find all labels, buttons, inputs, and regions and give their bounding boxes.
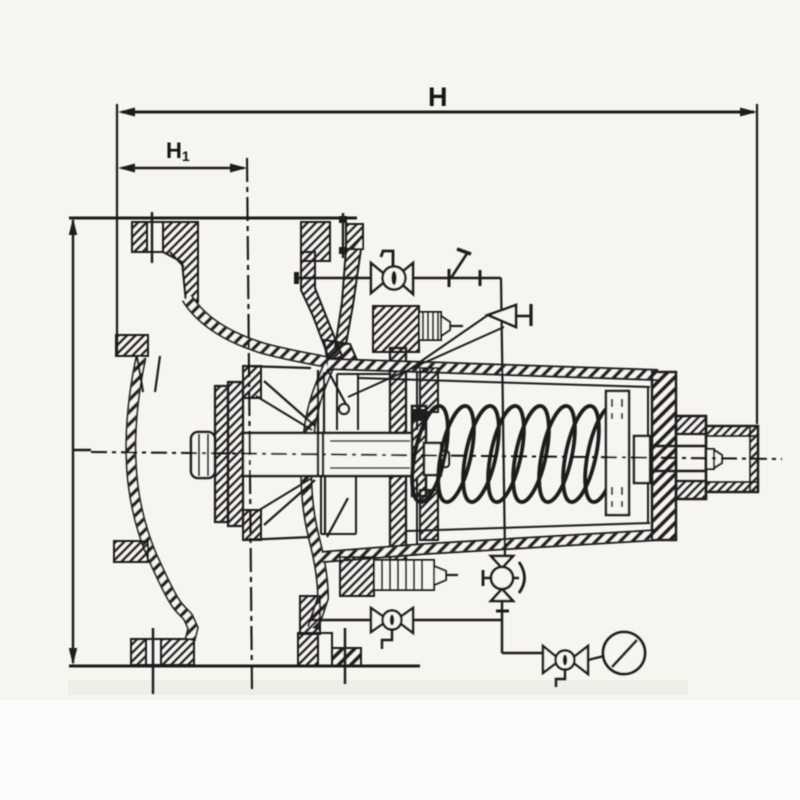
- volute outer wall upper arc (hatch): [131, 357, 193, 640]
- screw step: [706, 449, 714, 469]
- casing top-left wall block: [163, 222, 198, 302]
- discharge flange bolt: [339, 213, 347, 258]
- left vertical dimension line: [69, 218, 77, 665]
- impeller vane lines top: [264, 381, 315, 426]
- impeller nut facets: [198, 434, 200, 476]
- bottom drain flange foot: [298, 633, 361, 666]
- impeller shroud bottom line: [244, 537, 311, 540]
- bracket + cylinder bottom wall band (core): [322, 535, 658, 557]
- adjusting screw shank: [650, 446, 706, 471]
- shaft body mask: [243, 433, 412, 476]
- bracket + cylinder top wall band (core): [328, 364, 658, 375]
- horizontal centerline: [91, 452, 782, 459]
- suction mouth lower step: [114, 541, 148, 562]
- pipe boss at neck: [294, 272, 299, 284]
- valve V2 body: [371, 608, 413, 633]
- screw cone tip: [714, 450, 722, 468]
- end cap top band: [706, 426, 758, 436]
- horizontal centerline start tick: [73, 449, 91, 452]
- gland bolt hole: [339, 404, 349, 414]
- bottom fitting tip: [434, 566, 446, 585]
- valve V3 (vertical, on pipe drop): [491, 556, 513, 601]
- gland nut bottom: [676, 481, 706, 499]
- sampling cock lever: [451, 252, 468, 278]
- volute outer wall upper arc (core): [131, 357, 193, 640]
- bottom-left pipe: [310, 619, 371, 621]
- spring retainer nut: [424, 443, 441, 475]
- bracket + cylinder top wall band (hatch): [328, 364, 658, 375]
- spring adjusting sleeve: [606, 391, 629, 515]
- seal housing column lower: [390, 476, 406, 560]
- pipe union tick 2: [479, 270, 482, 286]
- pipe union tick 1: [448, 269, 451, 287]
- bottom base line: [69, 665, 420, 668]
- dimension H line: [118, 108, 757, 117]
- gland nut top: [676, 416, 706, 434]
- screw washer: [634, 436, 650, 483]
- spring coils: [405, 403, 628, 505]
- volute neck to bracket junction block: [324, 340, 357, 365]
- volute spiral wall band (dark edge): [187, 298, 330, 628]
- pipe to gauge branch: [502, 652, 543, 654]
- bottom fitting stem line: [446, 574, 458, 576]
- bottom fitting threaded stud: [374, 560, 434, 590]
- stud dark block: [413, 409, 426, 421]
- dimension H1 line: [118, 164, 247, 173]
- bottom drain flange bolt: [344, 628, 346, 684]
- sleeve thread dashes: [612, 399, 622, 507]
- suction flange top bolt: [151, 212, 153, 263]
- suction channel lines: [137, 356, 143, 392]
- impeller hub bottom: [243, 510, 261, 540]
- cylinder left wall lower: [420, 490, 438, 540]
- wear ring lines above shaft: [317, 370, 319, 433]
- impeller nut: [191, 432, 215, 478]
- top fitting stem line: [450, 325, 463, 327]
- impeller shroud top line: [244, 366, 311, 368]
- bracket inner verticals below shaft: [321, 365, 417, 545]
- discharge flange corner chamfer: [352, 236, 363, 249]
- top bracket fitting boss: [373, 306, 419, 352]
- cylinder inner top line: [358, 378, 650, 387]
- vertical centerline: [247, 158, 252, 690]
- wear ring line below shaft: [324, 476, 326, 533]
- extension line left (suction flange face): [116, 104, 118, 356]
- top fitting threaded stud: [419, 312, 441, 340]
- vertical pipe drop: [501, 278, 505, 556]
- valve V4 body: [543, 646, 588, 674]
- suction flange bottom section: [131, 639, 194, 665]
- extension line right: [756, 104, 758, 424]
- valve V1 plug slit: [391, 271, 396, 285]
- valve V4 drain hook: [556, 670, 565, 687]
- bottom lighter paper strip: [0, 700, 800, 800]
- bottom drain neck wall: [300, 596, 320, 634]
- chamfer line under flange: [170, 252, 184, 267]
- spring seat washer: [412, 406, 426, 496]
- faint scan streak band: [68, 680, 688, 695]
- top fitting tip: [441, 316, 450, 336]
- gauge needle: [612, 640, 637, 667]
- volute outer wall upper arc (dark edge): [131, 357, 193, 640]
- impeller front shroud strip: [228, 382, 243, 526]
- gland nut outline: [676, 416, 706, 499]
- chamber inner right line: [647, 388, 649, 522]
- impeller hub top: [243, 366, 261, 398]
- seal gland top box: [337, 374, 390, 430]
- valve V4 plug slit: [563, 655, 567, 666]
- end cap bottom band: [706, 482, 758, 492]
- shaft sleeve lines: [330, 440, 410, 442]
- top pipe line: [295, 277, 371, 280]
- injector symbol: [488, 305, 516, 327]
- spring retainer nut tip: [441, 451, 449, 467]
- valve V3 left stub: [483, 577, 491, 579]
- bracket + cylinder top wall band (edge): [328, 364, 658, 375]
- svg-text:H: H: [428, 82, 448, 112]
- union tick below V3: [496, 610, 509, 613]
- valve V1 body: [371, 263, 413, 294]
- cylinder left wall upper: [420, 368, 438, 412]
- discharge flange right block: [346, 224, 363, 249]
- pipe to junction: [413, 619, 502, 621]
- discharge neck right wall: [335, 249, 361, 348]
- valve V1 handle: [381, 251, 393, 267]
- discharge flange left block: [301, 222, 330, 261]
- bracket + cylinder bottom wall band (hatch): [322, 535, 658, 557]
- discharge neck left wall: [301, 252, 342, 361]
- cylinder right wall: [652, 372, 676, 540]
- suction flange top section: [132, 222, 163, 252]
- valve V3 right flag: [513, 577, 519, 579]
- end cap outline: [706, 426, 758, 492]
- pipe below V3: [501, 601, 503, 653]
- impeller vane lines bottom: [256, 396, 312, 430]
- injector leader line A: [404, 315, 488, 373]
- bracket + cylinder bottom wall band (edge): [322, 535, 658, 557]
- end cap right band: [750, 426, 758, 492]
- volute spiral wall band (paper core): [187, 298, 330, 628]
- shaft outline: [243, 433, 412, 476]
- suction mouth upper step: [116, 335, 148, 356]
- impeller washer strip: [215, 386, 228, 522]
- injector leader line B: [348, 327, 504, 397]
- bottom bracket boss: [340, 557, 374, 596]
- cylinder inner bottom line: [407, 523, 650, 531]
- top pipe line right of valve: [413, 277, 501, 280]
- valve V2 drain hook: [382, 630, 392, 649]
- pipe to gauge: [588, 656, 604, 660]
- suction flange bottom bolt: [152, 628, 154, 694]
- volute spiral wall band (hatch): [187, 298, 330, 628]
- top extension line: [69, 217, 357, 220]
- pressure gauge: [603, 632, 645, 674]
- seal housing column upper: [390, 348, 406, 433]
- valve V2 plug slit: [390, 615, 394, 626]
